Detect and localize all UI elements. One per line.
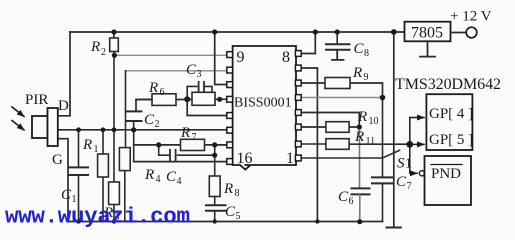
svg-text:10: 10 — [369, 116, 379, 127]
terminal +12V — [466, 27, 477, 38]
svg-text:1: 1 — [405, 157, 412, 172]
IR arrows — [12, 107, 24, 130]
capacitor C2 — [126, 111, 160, 130]
svg-text:G: G — [52, 152, 63, 168]
resistor R6 — [148, 80, 176, 105]
svg-text:R: R — [148, 80, 158, 96]
svg-text:2: 2 — [101, 47, 106, 58]
svg-text:+ 12 V: + 12 V — [450, 9, 492, 25]
ground — [387, 227, 401, 229]
svg-text:PND: PND — [431, 166, 461, 182]
capacitor C6 — [338, 127, 370, 222]
wire pin11 to top rail — [215, 32, 227, 84]
svg-text:C: C — [144, 112, 155, 128]
resistor R4 — [119, 148, 160, 222]
wire pin6 / R9 net — [302, 83, 383, 98]
resistor R7 — [180, 125, 205, 151]
IC pin stubs right — [295, 51, 301, 161]
regulator U2 7805 — [405, 22, 467, 42]
svg-text:C: C — [354, 41, 365, 57]
capacitor C4 — [159, 145, 215, 187]
svg-text:8: 8 — [364, 48, 369, 59]
svg-text:R: R — [357, 109, 367, 125]
svg-text:S: S — [397, 156, 405, 172]
wire pin16 net — [134, 161, 227, 163]
wire C2 branch vertical — [133, 122, 135, 162]
resistor R1 — [82, 130, 108, 222]
wire pin9 net from R2 bottom — [115, 54, 227, 56]
wire PIR gate lead down — [58, 139, 68, 222]
wire left rail down to PIR drain — [58, 32, 70, 116]
resistor R11 — [326, 129, 375, 149]
svg-text:7: 7 — [192, 132, 197, 143]
svg-text:C: C — [166, 169, 177, 185]
resistor R5 (unlabelled, parallel with C3) — [192, 92, 215, 105]
svg-text:R: R — [223, 181, 233, 197]
capacitor C1 — [61, 130, 88, 222]
svg-text:www.wuyazi.com: www.wuyazi.com — [5, 204, 190, 230]
wire pin13 elbow — [187, 99, 227, 115]
wire pin3 / R10 net — [302, 126, 360, 128]
svg-text:11: 11 — [366, 136, 376, 147]
capacitor C7 — [372, 98, 412, 222]
resistor R10 — [326, 109, 379, 132]
wire top supply rail — [70, 31, 405, 33]
wire main PIR output net — [58, 129, 227, 131]
svg-text:1: 1 — [286, 150, 294, 167]
wire pin8 to top rail — [302, 32, 316, 54]
svg-text:TMS320DM642: TMS320DM642 — [395, 76, 501, 93]
svg-text:C: C — [186, 62, 197, 78]
wire GP node branches with arrows — [410, 118, 424, 174]
wire pin2 / R11 net to GP node — [302, 143, 410, 145]
svg-text:D: D — [58, 98, 69, 114]
svg-text:8: 8 — [282, 49, 290, 66]
wire R2 bottom down to R3 — [113, 55, 115, 182]
svg-text:6: 6 — [160, 87, 165, 98]
svg-text:C: C — [225, 204, 236, 220]
capacitor C3 — [186, 62, 212, 99]
PND box — [425, 156, 472, 205]
wire pin15 / R7 net — [134, 144, 227, 146]
wire R6 left elbow to C2 — [136, 100, 152, 112]
svg-text:16: 16 — [237, 150, 253, 167]
svg-text:R: R — [352, 65, 362, 81]
svg-text:PIR: PIR — [25, 92, 48, 108]
wire pin7 down to ground rail — [302, 68, 318, 222]
wire pin10 corner down to R4 — [125, 71, 127, 148]
switch S1 blade — [383, 150, 400, 158]
svg-text:8: 8 — [235, 188, 240, 199]
wire pin5 net — [302, 97, 383, 99]
GP port box — [426, 94, 473, 150]
svg-text:BISS0001: BISS0001 — [234, 96, 292, 111]
svg-text:9: 9 — [364, 72, 369, 83]
svg-text:4: 4 — [156, 174, 161, 185]
svg-text:R: R — [354, 129, 364, 145]
wire pin1 to switch — [302, 157, 383, 159]
svg-text:C: C — [338, 189, 349, 205]
wire bottom ground rail — [68, 221, 383, 223]
resistor R8 — [209, 176, 239, 199]
svg-text:6: 6 — [349, 196, 354, 207]
svg-text:R: R — [90, 39, 100, 55]
IC pin stubs left — [227, 52, 233, 165]
svg-text:4: 4 — [177, 176, 182, 187]
capacitor C8 — [326, 32, 369, 60]
wire pin10 net — [126, 70, 228, 72]
svg-text:2: 2 — [155, 119, 160, 130]
svg-text:C: C — [61, 187, 72, 203]
PIR sensor — [25, 92, 69, 168]
svg-text:R: R — [82, 137, 92, 153]
ground 7805 — [420, 41, 435, 56]
svg-text:GP[ 4 ]: GP[ 4 ] — [429, 106, 473, 122]
svg-text:3: 3 — [197, 69, 202, 80]
svg-text:R: R — [144, 167, 154, 183]
inverter bubble at PND input — [419, 171, 424, 176]
capacitor C5 — [206, 197, 241, 223]
svg-text:7805: 7805 — [411, 25, 443, 42]
wire pin15 node down to R8 — [214, 145, 216, 176]
IC U1 BISS0001 — [233, 46, 296, 170]
svg-text:C: C — [396, 174, 407, 190]
resistor R9 — [325, 65, 369, 89]
resistor R3 — [103, 182, 120, 223]
resistor R2 — [90, 32, 118, 58]
svg-text:R: R — [180, 125, 190, 141]
wire pin12 / R6-R5 net — [136, 98, 227, 100]
wire right supply vertical to ground bar — [393, 32, 395, 227]
svg-text:5: 5 — [236, 211, 241, 222]
svg-text:GP[ 5 ]: GP[ 5 ] — [429, 132, 473, 148]
svg-text:1: 1 — [94, 144, 99, 155]
svg-text:9: 9 — [237, 49, 245, 66]
svg-text:7: 7 — [407, 181, 412, 192]
wire pin4 elbow down — [302, 113, 360, 128]
